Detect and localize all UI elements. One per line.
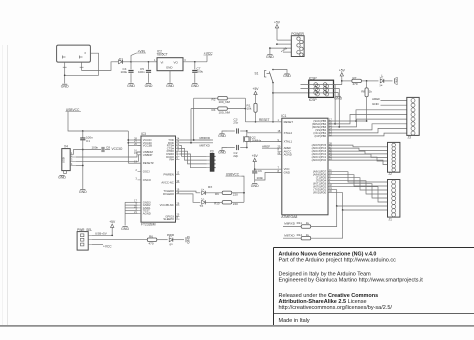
svg-text:VO: VO (174, 60, 179, 64)
svg-text:VCC3B-NC: VCC3B-NC (160, 203, 174, 207)
svg-text:XTAL2: XTAL2 (284, 131, 293, 135)
svg-text:PWREN: PWREN (164, 172, 174, 176)
wire X4 shield (64, 171, 67, 174)
svg-text:GND: GND (218, 134, 226, 138)
svg-text:C6: C6 (258, 169, 262, 173)
wire PC5 to J2 (328, 145, 388, 147)
connector X4 USB (62, 145, 77, 171)
svg-text:RX: RX (208, 185, 212, 189)
svg-text:J3: J3 (408, 136, 412, 140)
connector J2 (388, 142, 400, 176)
switch S1 (255, 69, 274, 84)
capacitor C2 22p (227, 145, 247, 158)
svg-text:VCC3O: VCC3O (112, 147, 123, 151)
svg-text:Arduino Nuova Generazione (NG: Arduino Nuova Generazione (NG) v.4.0 (279, 251, 377, 257)
wire CTS to X3 (180, 148, 207, 160)
svg-text:ATMEGA8: ATMEGA8 (281, 215, 297, 219)
LED TX (180, 194, 223, 208)
capacitor C1 100n (80, 131, 93, 166)
svg-text:USBVCC: USBVCC (226, 172, 240, 176)
svg-text:GND: GND (145, 84, 153, 88)
svg-text:100n: 100n (138, 70, 145, 74)
wire PB2 to J3 (328, 124, 407, 130)
svg-text:RESET#: RESET# (143, 161, 154, 165)
ground at X4 shield (58, 175, 66, 179)
wire PB1 to J3 (328, 128, 407, 133)
svg-text:S1: S1 (255, 71, 259, 75)
resistor R2 100_NM (194, 97, 246, 105)
resistor R11 1k (283, 206, 337, 228)
svg-text:100n: 100n (257, 176, 264, 180)
svg-text:GND: GND (283, 74, 291, 78)
svg-text:AREF: AREF (262, 144, 270, 148)
wire DSR to X3 (180, 154, 207, 168)
wire PD1 to J1 (328, 190, 388, 207)
svg-text:RESET: RESET (284, 120, 294, 124)
frame left edge (7, 45, 9, 326)
IC1 decoupling +5V arrow (252, 154, 259, 170)
ground at C3 (218, 131, 227, 138)
svg-text:TX: TX (199, 204, 203, 208)
wire PC0 to J2 (328, 160, 388, 164)
svg-text:GND: GND (79, 190, 87, 194)
ground at LED L (395, 77, 399, 85)
ground under C7 (191, 84, 199, 88)
+5V arrow at PWR_SEL (109, 220, 116, 236)
label M8RXD at FTDI (180, 136, 214, 140)
resistor R9 220 (215, 191, 245, 196)
wire ICSP ground (334, 93, 339, 96)
capacitor C7 100u (192, 62, 203, 83)
ground at POWER header (266, 55, 274, 59)
wire X4 GND (76, 165, 84, 189)
connector J3 (407, 97, 419, 139)
svg-text:GND: GND (127, 84, 135, 88)
svg-text:R9: R9 (215, 192, 219, 196)
wire PC4 to J2 (328, 148, 388, 150)
LED PWR green (167, 233, 184, 246)
ground at S1 (283, 74, 291, 78)
LED RX (180, 185, 223, 195)
svg-text:http://creativecommons.org/lic: http://creativecommons.org/licenses/by-s… (279, 305, 393, 311)
svg-text:AGND: AGND (143, 212, 151, 216)
ground at FTDI (121, 227, 129, 231)
svg-text:gn: gn (170, 242, 174, 246)
wire RTS to X3 (180, 146, 207, 157)
usb interface IC3 FT232BM (134, 132, 180, 226)
microcontroller IC1 ATMEGA8 (278, 114, 333, 219)
connector J1 (388, 180, 400, 222)
svg-text:AREF: AREF (372, 97, 380, 101)
capacitor C3 27p (227, 117, 248, 133)
wire PD3 to J1 (328, 184, 388, 198)
svg-text:R7: R7 (353, 76, 357, 80)
svg-text:+5V: +5V (109, 220, 116, 224)
svg-text:GND: GND (218, 151, 226, 155)
ICSP +5V arrow (339, 68, 346, 84)
label GND at J3 (372, 102, 407, 106)
label +VCC (204, 51, 214, 62)
svg-text:100u: 100u (121, 70, 128, 74)
connector X1 power jack (57, 45, 91, 62)
svg-text:FT232BM: FT232BM (141, 223, 156, 227)
label +VCC at PWR_SEL (92, 245, 112, 249)
ground at C2 (218, 148, 227, 155)
svg-text:R11: R11 (297, 221, 303, 225)
svg-text:RI#: RI# (169, 158, 174, 162)
license text box (274, 248, 474, 326)
svg-text:100u: 100u (197, 70, 204, 74)
svg-text:GND: GND (121, 227, 129, 231)
resistor R8 1k (361, 81, 372, 122)
wire DTR to X3 (180, 151, 207, 164)
svg-text:+5V: +5V (253, 87, 260, 91)
wire PB5 to J3 (328, 110, 407, 122)
node VIN junction at C4 (130, 61, 148, 63)
svg-text:GND: GND (395, 77, 399, 85)
wire PD7 to J1 (328, 172, 388, 182)
wire PC2 to J2 (328, 154, 388, 157)
svg-text:470: 470 (149, 242, 154, 246)
svg-text:J1: J1 (389, 218, 393, 222)
wire PD0 to J1 (328, 193, 388, 211)
resistor R4 100_NM (191, 107, 246, 115)
svg-text:GND: GND (284, 171, 290, 175)
label AREF at J3 (372, 97, 407, 101)
svg-text:ICSP: ICSP (309, 98, 318, 102)
svg-text:+VCC: +VCC (204, 51, 214, 55)
svg-text:Made in Italy: Made in Italy (279, 318, 310, 324)
made in italy text (279, 318, 310, 324)
wire +5V to POWER header (276, 40, 291, 45)
wire FTDI reset pin (128, 162, 141, 164)
wire ICSP SCK MOSI taps (301, 85, 340, 127)
svg-text:GND: GND (61, 85, 69, 89)
connector SV1 PWR_SEL (77, 228, 92, 250)
svg-text:GND: GND (58, 176, 66, 180)
svg-text:GND: GND (266, 55, 274, 59)
wire PB4 to J3 (328, 115, 407, 125)
ground under jack (61, 84, 69, 88)
svg-text:Attribution-ShareAlike 2.5 Lic: Attribution-ShareAlike 2.5 License (279, 299, 367, 305)
svg-text:(RXD)PD0: (RXD)PD0 (313, 191, 327, 195)
resistor R7 470 (342, 76, 368, 86)
wire USB+5V to PWR_SEL (92, 231, 113, 236)
wire jack ground (63, 62, 67, 83)
svg-text:X3: X3 (210, 149, 214, 153)
svg-text:M8TXD: M8TXD (284, 233, 295, 237)
wire VCC rail to FTDI (82, 130, 141, 163)
label M8TXD at FTDI (180, 143, 214, 148)
wire S1 to ground (273, 70, 287, 74)
svg-text:C8: C8 (106, 146, 110, 150)
ground at ICSP (334, 96, 342, 100)
svg-text:USBDP: USBDP (143, 153, 153, 157)
svg-text:1k: 1k (369, 89, 373, 93)
svg-text:7805CT: 7805CT (157, 53, 168, 57)
svg-text:VI: VI (161, 60, 164, 64)
connector ICSP header (309, 77, 334, 103)
wire PWR_SEL to LED PWR (92, 239, 147, 241)
ground at IC1 decoupling (251, 184, 259, 188)
label +VIN (131, 49, 146, 62)
svg-text:M8TXD: M8TXD (200, 144, 211, 148)
svg-text:GND: GND (372, 102, 380, 106)
svg-text:10k: 10k (247, 107, 252, 111)
wire X4 VBUS (74, 150, 83, 155)
label AREF wire (262, 144, 282, 148)
svg-text:AGND: AGND (284, 153, 292, 157)
svg-text:100_NM: 100_NM (219, 100, 231, 104)
reset +5V arrow (253, 87, 260, 96)
ground under IC2 (166, 84, 174, 88)
svg-text:GND: GND (191, 84, 199, 88)
svg-text:X4: X4 (64, 145, 68, 149)
wire PD2 to J1 (328, 187, 388, 202)
svg-text:USBVCC: USBVCC (66, 108, 80, 112)
wire FTDI ground pins (125, 202, 137, 225)
svg-text:(ICP)PB0: (ICP)PB0 (315, 134, 327, 138)
svg-text:ye: ye (380, 83, 383, 87)
svg-text:USB+5V: USB+5V (95, 231, 108, 235)
frame bottom edge (0, 325, 474, 327)
resistor R10 220 (214, 201, 244, 206)
wire S1 to reset net (272, 83, 333, 123)
connector POWER header (291, 32, 304, 57)
wire GND pin IC1 (255, 173, 282, 181)
wire PD5 to J1 (328, 178, 388, 190)
wire R2 net to M8RXD (193, 98, 195, 141)
wire USBDP (76, 155, 141, 162)
wire PD4 to J1 (328, 181, 388, 194)
label +VIN at POWER header (280, 46, 292, 53)
wire XTAL1 (247, 142, 282, 148)
wire regulator ground pin (169, 71, 171, 83)
svg-text:VCC3B: VCC3B (143, 144, 152, 148)
svg-text:OSCI: OSCI (143, 170, 150, 174)
svg-text:GND: GND (186, 235, 190, 243)
svg-text:16MHz: 16MHz (252, 139, 262, 143)
capacitor C8 100n VCC3O (83, 146, 123, 153)
license title text (279, 251, 397, 263)
svg-text:AVCC-NC: AVCC-NC (161, 181, 173, 185)
svg-text:+5V: +5V (252, 154, 259, 158)
svg-text:+VCC: +VCC (103, 245, 112, 249)
capacitor C6 100n (252, 169, 263, 183)
ground at LED PWR (186, 235, 190, 243)
wire jack to diode (80, 62, 115, 71)
wire regulator output (183, 61, 207, 63)
svg-text:+VIN: +VIN (138, 49, 146, 53)
capacitor C5 100n (138, 61, 151, 83)
label USBVCC at leds (226, 172, 245, 202)
wire reset pullup net (244, 98, 246, 122)
wire PD6 to J1 (328, 175, 388, 186)
wire POWER header gnd (269, 47, 291, 54)
wire USBDM (76, 152, 141, 157)
svg-text:Engineered by Gianluca Martino: Engineered by Gianluca Martino http://ww… (279, 278, 424, 284)
voltage regulator IC2 7805 (154, 49, 186, 70)
wire C5 to regulator (149, 61, 158, 63)
wire PC1 to J2 (328, 157, 388, 161)
license cc text (279, 293, 393, 311)
wire PB3 to J3 (328, 119, 407, 128)
wire PC3 to J2 (328, 151, 388, 154)
ground under C4 (127, 84, 135, 88)
svg-text:+5V: +5V (339, 68, 346, 72)
svg-text:+5V: +5V (274, 20, 281, 24)
wire PB0 to J3 (328, 133, 407, 136)
svg-text:22p: 22p (233, 154, 238, 158)
svg-text:100_NM: 100_NM (219, 111, 231, 115)
power +5V arrow (274, 20, 281, 40)
wire R4 net to M8TXD (190, 109, 192, 144)
svg-text:GND: GND (251, 184, 259, 188)
svg-text:RXLED#: RXLED# (163, 192, 174, 196)
ground at USB rail (79, 190, 87, 194)
connector X3 (207, 149, 216, 171)
ground under C5 (145, 84, 153, 88)
resistor R1 10k (247, 96, 258, 122)
svg-text:GND: GND (166, 84, 174, 88)
svg-text:GND: GND (334, 97, 342, 101)
crystal Q2 16MHz (243, 133, 261, 149)
svg-text:R10: R10 (214, 202, 220, 206)
resistor R6 470 (147, 235, 167, 246)
svg-text:J2: J2 (389, 172, 393, 176)
svg-text:Part of the Arduino project ht: Part of the Arduino project http://www.a… (279, 257, 397, 263)
label USBVCC rail (66, 108, 83, 131)
diode D1 (115, 57, 132, 64)
wire jack switch pin (65, 53, 99, 75)
wire ICSP MISO (301, 84, 342, 86)
svg-text:C1: C1 (86, 139, 90, 143)
svg-text:GND: GND (166, 66, 172, 70)
svg-text:M8RXD: M8RXD (284, 222, 295, 226)
svg-text:SLEEP#: SLEEP# (163, 217, 174, 221)
svg-text:(ADC0)PC0: (ADC0)PC0 (312, 158, 327, 162)
svg-text:27p: 27p (233, 121, 238, 125)
LED L yellow (367, 74, 393, 87)
wire reset net to IC1 (245, 121, 281, 123)
svg-text:OSCO: OSCO (143, 178, 152, 182)
capacitor C4 100u (121, 62, 134, 83)
license design credit text (279, 272, 424, 284)
wire XTAL2 (247, 131, 282, 133)
svg-text:POWER: POWER (291, 32, 304, 36)
svg-text:USB: USB (62, 157, 66, 163)
svg-text:XTAL1: XTAL1 (284, 140, 293, 144)
wire VCC pin IC1 (255, 168, 282, 170)
resistor R12 1k (283, 210, 343, 240)
svg-text:100n: 100n (92, 146, 99, 150)
label RESET (259, 118, 270, 122)
svg-text:M8RXD: M8RXD (200, 136, 211, 140)
svg-text:IC1: IC1 (281, 114, 286, 118)
